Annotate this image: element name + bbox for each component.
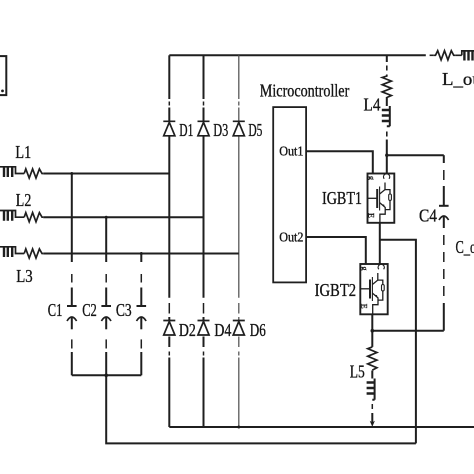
svg-text:g: g xyxy=(367,176,376,180)
svg-text:L_out: L_out xyxy=(442,69,474,89)
svg-text:C_ou: C_ou xyxy=(456,237,474,257)
svg-text:D2: D2 xyxy=(179,320,196,340)
svg-text:E: E xyxy=(359,304,368,309)
svg-text:D6: D6 xyxy=(250,320,266,340)
svg-text:IGBT1: IGBT1 xyxy=(322,188,362,208)
svg-text:L1: L1 xyxy=(15,142,31,162)
svg-text:C4: C4 xyxy=(419,206,437,226)
svg-text:C2: C2 xyxy=(82,300,97,320)
svg-text:Out2: Out2 xyxy=(279,231,303,246)
svg-text:C1: C1 xyxy=(48,300,63,320)
svg-text:Microcontroller: Microcontroller xyxy=(260,81,350,101)
svg-text:D3: D3 xyxy=(213,120,228,140)
svg-text:IGBT2: IGBT2 xyxy=(315,280,357,300)
svg-text:g: g xyxy=(360,267,369,271)
svg-text:L3: L3 xyxy=(16,266,33,286)
svg-text:D4: D4 xyxy=(214,320,231,340)
svg-text:L2: L2 xyxy=(16,190,31,210)
svg-text:Out1: Out1 xyxy=(279,145,303,160)
svg-text:D5: D5 xyxy=(248,120,262,140)
svg-text:L5: L5 xyxy=(350,362,365,382)
svg-text:L4: L4 xyxy=(364,95,381,115)
svg-text:E: E xyxy=(367,213,376,218)
svg-text:C3: C3 xyxy=(116,300,132,320)
svg-text:D1: D1 xyxy=(179,120,193,140)
